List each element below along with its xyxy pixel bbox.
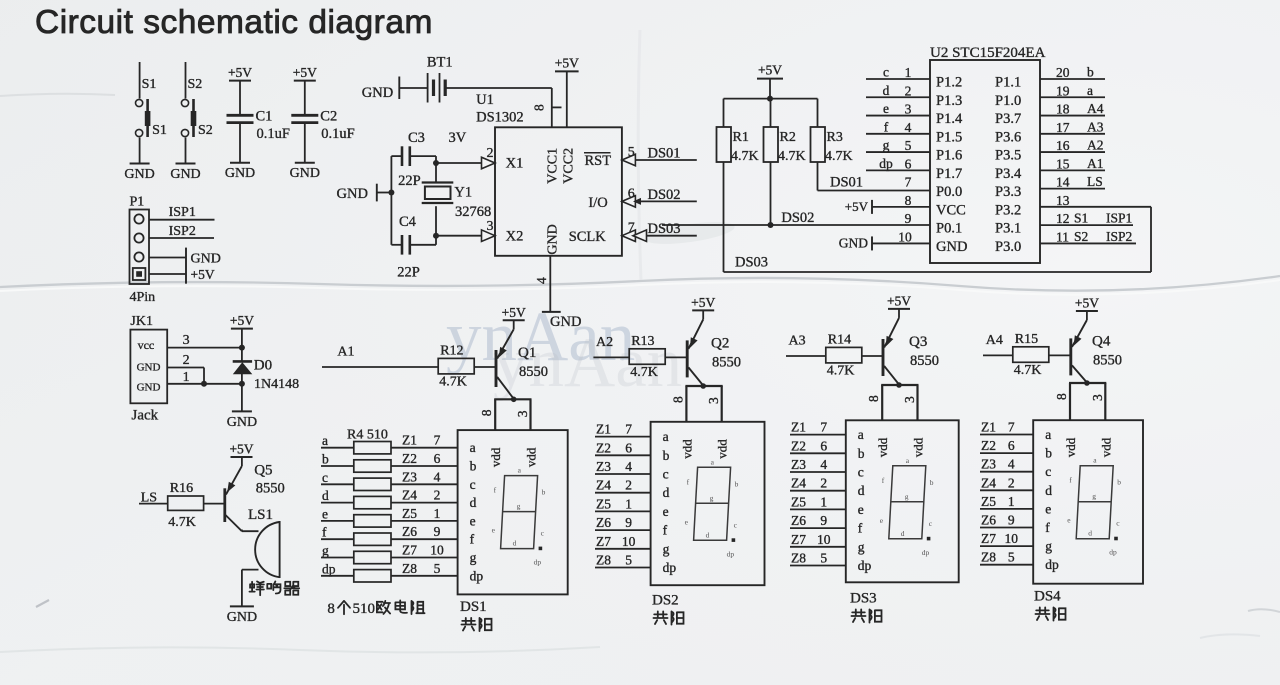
svg-text:R13: R13: [631, 334, 654, 349]
svg-text:0.1uF: 0.1uF: [321, 126, 354, 142]
svg-text:g: g: [322, 543, 329, 558]
svg-text:6: 6: [905, 156, 912, 171]
svg-text:GND: GND: [191, 252, 221, 267]
svg-text:ISP2: ISP2: [1106, 229, 1132, 244]
svg-text:a: a: [1045, 427, 1051, 442]
svg-text:1N4148: 1N4148: [254, 377, 299, 392]
svg-text:14: 14: [1056, 175, 1070, 190]
svg-text:10: 10: [430, 543, 444, 558]
svg-text:Z3: Z3: [791, 457, 806, 472]
svg-text:Circuit schematic diagram: Circuit schematic diagram: [35, 4, 433, 41]
svg-text:R4 510: R4 510: [347, 428, 388, 443]
svg-text:Z3: Z3: [402, 469, 417, 484]
svg-text:GND: GND: [290, 166, 320, 181]
svg-text:DS03: DS03: [648, 221, 681, 237]
svg-text:a: a: [470, 440, 476, 455]
svg-text:5: 5: [905, 138, 912, 153]
svg-text:Z7: Z7: [402, 543, 417, 558]
svg-text:+5V: +5V: [502, 305, 526, 320]
svg-text:Z5: Z5: [402, 506, 417, 521]
svg-text:4.7K: 4.7K: [778, 149, 806, 164]
svg-text:DS4: DS4: [1034, 589, 1061, 605]
svg-text:4.7K: 4.7K: [439, 375, 467, 390]
svg-text:JK1: JK1: [130, 314, 153, 329]
svg-text:Z2: Z2: [981, 438, 996, 453]
svg-text:Z4: Z4: [402, 488, 417, 503]
svg-text:2: 2: [487, 146, 494, 161]
svg-text:b: b: [1045, 446, 1052, 461]
svg-text:g: g: [470, 550, 477, 565]
svg-text:Z2: Z2: [402, 451, 417, 466]
svg-text:+5V: +5V: [758, 63, 782, 78]
svg-text:LS1: LS1: [248, 507, 273, 523]
svg-text:BT1: BT1: [427, 55, 453, 71]
svg-text:Z8: Z8: [981, 550, 996, 565]
svg-text:5: 5: [628, 145, 635, 160]
svg-text:c: c: [470, 477, 476, 492]
svg-text:9: 9: [905, 211, 912, 226]
svg-text:1: 1: [625, 496, 632, 511]
svg-text:Z3: Z3: [981, 457, 996, 472]
svg-text:+5V: +5V: [230, 313, 254, 328]
svg-text:g: g: [663, 541, 670, 556]
svg-text:1: 1: [434, 506, 441, 521]
svg-text:GND: GND: [550, 314, 581, 330]
svg-text:R12: R12: [440, 344, 463, 359]
svg-text:9: 9: [820, 513, 827, 528]
svg-text:dp: dp: [858, 558, 872, 573]
svg-text:+5V: +5V: [228, 65, 252, 80]
svg-text:2: 2: [183, 353, 190, 368]
svg-text:d: d: [470, 495, 477, 510]
svg-text:D0: D0: [254, 358, 272, 374]
svg-text:g: g: [883, 138, 890, 153]
svg-text:19: 19: [1056, 83, 1070, 98]
svg-text:c: c: [858, 465, 864, 480]
svg-text:P1.0: P1.0: [995, 93, 1021, 109]
svg-text:3V: 3V: [449, 130, 467, 146]
svg-text:GND: GND: [227, 610, 257, 625]
svg-text:5: 5: [434, 561, 441, 576]
svg-text:C4: C4: [399, 214, 417, 230]
svg-text:c: c: [1045, 464, 1051, 479]
svg-text:+5V: +5V: [229, 442, 253, 457]
svg-text:2: 2: [434, 488, 441, 503]
svg-text:dp: dp: [470, 568, 484, 583]
svg-text:d: d: [322, 488, 329, 503]
svg-text:+5V: +5V: [1075, 296, 1099, 311]
svg-text:1: 1: [820, 494, 827, 509]
svg-text:8550: 8550: [910, 353, 939, 369]
svg-text:LS: LS: [1087, 174, 1103, 189]
svg-text:f: f: [322, 525, 327, 540]
svg-text:Z1: Z1: [791, 420, 806, 435]
svg-text:VCC2: VCC2: [561, 148, 576, 184]
svg-text:2: 2: [1008, 475, 1015, 490]
svg-text:Z1: Z1: [402, 433, 417, 448]
svg-text:3: 3: [1090, 394, 1105, 401]
svg-text:Q5: Q5: [254, 463, 272, 479]
svg-text:GND: GND: [225, 166, 255, 181]
svg-text:SCLK: SCLK: [569, 229, 607, 245]
svg-text:510: 510: [353, 601, 376, 617]
svg-text:6: 6: [820, 438, 827, 453]
svg-text:4.7K: 4.7K: [168, 515, 196, 530]
svg-text:Q3: Q3: [909, 334, 927, 350]
svg-text:P3.2: P3.2: [995, 202, 1021, 218]
svg-text:11: 11: [1056, 229, 1069, 244]
svg-text:7: 7: [905, 175, 912, 190]
svg-text:Z4: Z4: [981, 475, 996, 490]
svg-text:U1: U1: [476, 92, 494, 108]
svg-text:X2: X2: [506, 229, 524, 245]
svg-text:5: 5: [625, 553, 632, 568]
svg-text:X1: X1: [506, 156, 524, 172]
svg-text:4.7K: 4.7K: [731, 149, 759, 164]
svg-text:15: 15: [1056, 156, 1070, 171]
svg-text:d: d: [901, 529, 905, 538]
svg-text:3: 3: [902, 396, 917, 403]
svg-text:2: 2: [820, 476, 827, 491]
svg-text:DS01: DS01: [830, 175, 863, 191]
svg-text:dp: dp: [1109, 548, 1117, 557]
svg-text:I/O: I/O: [588, 195, 607, 211]
svg-text:Z2: Z2: [791, 438, 806, 453]
svg-text:d: d: [883, 83, 890, 98]
svg-text:dp: dp: [1045, 557, 1059, 572]
svg-text:Z8: Z8: [596, 553, 611, 568]
svg-text:f: f: [1045, 520, 1050, 535]
svg-text:e: e: [883, 101, 889, 116]
svg-text:4: 4: [1008, 457, 1015, 472]
svg-text:GND: GND: [227, 415, 257, 430]
svg-text:b: b: [930, 478, 934, 487]
svg-text:2: 2: [905, 83, 912, 98]
svg-text:22P: 22P: [397, 265, 420, 281]
svg-text:A1: A1: [1087, 156, 1104, 171]
svg-text:S1: S1: [142, 77, 157, 92]
svg-text:dp: dp: [322, 561, 336, 576]
svg-text:Z1: Z1: [981, 420, 996, 435]
svg-text:A2: A2: [596, 335, 613, 350]
svg-text:c: c: [663, 467, 669, 482]
svg-text:4.7K: 4.7K: [825, 149, 853, 164]
svg-text:P1.2: P1.2: [936, 75, 962, 91]
svg-text:d: d: [706, 530, 710, 539]
svg-text:b: b: [858, 446, 865, 461]
svg-text:Jack: Jack: [132, 408, 159, 424]
svg-text:4: 4: [905, 120, 912, 135]
svg-text:GND: GND: [546, 224, 561, 254]
svg-text:b: b: [470, 459, 477, 474]
svg-text:3: 3: [183, 333, 190, 348]
svg-text:DS1302: DS1302: [476, 110, 524, 126]
svg-text:8550: 8550: [256, 481, 285, 497]
svg-text:4.7K: 4.7K: [630, 365, 658, 380]
svg-text:VCC1: VCC1: [546, 148, 561, 184]
svg-text:DS02: DS02: [781, 210, 814, 226]
svg-text:g: g: [710, 493, 714, 502]
svg-text:P1.6: P1.6: [936, 148, 962, 164]
svg-text:3: 3: [515, 410, 530, 417]
svg-text:6: 6: [628, 187, 635, 202]
svg-text:9: 9: [1008, 513, 1015, 528]
svg-text:e: e: [663, 504, 669, 519]
svg-text:a: a: [1087, 83, 1093, 98]
svg-text:Z6: Z6: [981, 513, 996, 528]
svg-text:A1: A1: [337, 345, 354, 360]
svg-text:8: 8: [1054, 393, 1069, 400]
svg-text:0.1uF: 0.1uF: [257, 126, 290, 142]
svg-text:GND: GND: [839, 235, 868, 250]
svg-text:U2 STC15F204EA: U2 STC15F204EA: [930, 45, 1046, 61]
svg-text:3: 3: [487, 219, 494, 234]
svg-text:10: 10: [898, 229, 912, 244]
svg-text:a: a: [858, 427, 864, 442]
svg-text:P1: P1: [130, 195, 145, 210]
svg-text:DS01: DS01: [648, 146, 681, 162]
svg-text:P0.0: P0.0: [936, 184, 962, 200]
svg-text:8550: 8550: [712, 354, 741, 370]
svg-text:18: 18: [1056, 102, 1070, 117]
svg-text:DS02: DS02: [648, 187, 681, 203]
svg-text:Z5: Z5: [791, 494, 806, 509]
svg-text:d: d: [513, 539, 517, 548]
svg-text:DS03: DS03: [735, 255, 768, 271]
svg-text:c: c: [322, 470, 328, 485]
svg-text:R3: R3: [827, 130, 843, 145]
svg-text:Z7: Z7: [596, 534, 611, 549]
svg-text:S1: S1: [1074, 211, 1088, 226]
svg-text:g: g: [858, 539, 865, 554]
svg-text:5: 5: [820, 551, 827, 566]
svg-text:S2: S2: [188, 77, 203, 92]
svg-text:Z8: Z8: [402, 561, 417, 576]
svg-text:+5V: +5V: [691, 295, 715, 310]
svg-text:Q4: Q4: [1092, 333, 1111, 349]
svg-text:5: 5: [1008, 550, 1015, 565]
svg-text:10: 10: [1004, 531, 1018, 546]
svg-text:A4: A4: [986, 333, 1003, 348]
svg-text:2: 2: [625, 478, 632, 493]
svg-text:S2: S2: [198, 123, 213, 138]
svg-text:S2: S2: [1074, 229, 1088, 244]
svg-text:+5V: +5V: [555, 56, 579, 71]
svg-text:d: d: [858, 483, 865, 498]
svg-text:P1.5: P1.5: [936, 129, 962, 145]
svg-text:7: 7: [434, 433, 441, 448]
svg-text:Z6: Z6: [596, 515, 611, 530]
svg-text:20: 20: [1056, 65, 1070, 80]
svg-text:4: 4: [534, 277, 549, 284]
svg-text:4: 4: [434, 469, 441, 484]
svg-text:A3: A3: [1087, 119, 1104, 134]
svg-text:DS3: DS3: [850, 591, 877, 607]
svg-text:22P: 22P: [398, 173, 421, 189]
svg-text:8550: 8550: [519, 364, 548, 380]
svg-text:vdd: vdd: [911, 437, 926, 457]
svg-text:vdd: vdd: [488, 447, 503, 467]
svg-text:Z5: Z5: [981, 494, 996, 509]
svg-text:GND: GND: [137, 362, 161, 374]
svg-text:Z1: Z1: [596, 422, 611, 437]
svg-text:d: d: [1045, 483, 1052, 498]
svg-text:vcc: vcc: [138, 338, 155, 352]
svg-text:Z6: Z6: [402, 524, 417, 539]
svg-text:8: 8: [905, 193, 912, 208]
svg-text:3: 3: [905, 102, 912, 117]
svg-text:1: 1: [1008, 494, 1015, 509]
svg-text:R2: R2: [780, 130, 796, 145]
svg-text:f: f: [884, 119, 889, 134]
svg-text:4Pin: 4Pin: [130, 290, 156, 305]
svg-text:16: 16: [1056, 138, 1070, 153]
svg-text:S1: S1: [152, 123, 167, 138]
svg-text:GND: GND: [124, 167, 154, 182]
svg-text:R16: R16: [170, 481, 193, 496]
svg-text:e: e: [1045, 501, 1051, 516]
svg-text:f: f: [470, 532, 475, 547]
svg-text:9: 9: [434, 524, 441, 539]
svg-text:P3.1: P3.1: [995, 221, 1021, 237]
svg-text:vdd: vdd: [1063, 437, 1078, 457]
svg-text:8550: 8550: [1093, 352, 1122, 368]
svg-text:4.7K: 4.7K: [827, 364, 855, 379]
svg-text:3: 3: [706, 397, 721, 404]
svg-text:a: a: [663, 429, 669, 444]
svg-text:7: 7: [1008, 420, 1015, 435]
svg-text:vdd: vdd: [679, 439, 694, 459]
svg-text:8: 8: [479, 409, 494, 416]
svg-text:12: 12: [1056, 211, 1070, 226]
svg-text:A4: A4: [1087, 101, 1104, 116]
svg-text:Z7: Z7: [981, 531, 996, 546]
svg-text:9: 9: [625, 515, 632, 530]
svg-text:Z5: Z5: [596, 496, 611, 511]
svg-text:13: 13: [1056, 193, 1070, 208]
svg-text:P3.6: P3.6: [995, 129, 1021, 145]
svg-text:dp: dp: [727, 549, 735, 558]
svg-text:dp: dp: [663, 560, 677, 575]
svg-text:d: d: [663, 485, 670, 500]
svg-text:e: e: [470, 513, 476, 528]
svg-text:vdd: vdd: [1098, 437, 1113, 457]
svg-text:e: e: [858, 502, 864, 517]
svg-text:g: g: [1092, 492, 1096, 501]
svg-text:C3: C3: [408, 130, 425, 146]
svg-text:+5V: +5V: [887, 293, 911, 308]
svg-text:a: a: [322, 433, 328, 448]
svg-text:C2: C2: [320, 109, 337, 125]
svg-text:P1.1: P1.1: [995, 75, 1021, 91]
svg-text:g: g: [1045, 539, 1052, 554]
svg-text:P1.7: P1.7: [936, 166, 962, 182]
svg-text:R1: R1: [733, 130, 749, 145]
svg-text:GND: GND: [337, 186, 368, 202]
svg-text:32768: 32768: [455, 204, 491, 220]
svg-text:17: 17: [1056, 120, 1070, 135]
svg-text:e: e: [322, 506, 328, 521]
svg-text:b: b: [1087, 65, 1094, 80]
svg-text:+5V: +5V: [191, 267, 215, 282]
svg-text:b: b: [1117, 478, 1121, 487]
svg-text:d: d: [1088, 529, 1092, 538]
svg-text:R14: R14: [828, 333, 851, 348]
svg-text:vdd: vdd: [875, 437, 890, 457]
svg-text:8: 8: [670, 396, 685, 403]
svg-text:P0.1: P0.1: [936, 221, 962, 237]
svg-text:c: c: [883, 65, 889, 80]
svg-text:Z4: Z4: [791, 476, 806, 491]
svg-text:P3.7: P3.7: [995, 111, 1021, 127]
svg-text:g: g: [905, 492, 909, 501]
svg-text:1: 1: [905, 65, 912, 80]
svg-text:ISP1: ISP1: [1106, 211, 1132, 226]
svg-text:6: 6: [1008, 438, 1015, 453]
svg-text:P3.4: P3.4: [995, 166, 1022, 182]
svg-text:P1.3: P1.3: [936, 93, 962, 109]
svg-text:1: 1: [183, 370, 190, 385]
svg-text:7: 7: [628, 221, 635, 236]
svg-text:P3.0: P3.0: [995, 239, 1021, 255]
svg-text:b: b: [663, 448, 670, 463]
svg-text:RST: RST: [585, 153, 612, 169]
svg-text:4.7K: 4.7K: [1014, 363, 1042, 378]
svg-text:VCC: VCC: [936, 202, 966, 218]
svg-text:Z4: Z4: [596, 478, 611, 493]
svg-text:4: 4: [820, 457, 827, 472]
svg-text:Y1: Y1: [454, 185, 472, 201]
svg-text:Q2: Q2: [711, 335, 729, 351]
svg-text:GND: GND: [362, 85, 393, 101]
svg-text:b: b: [735, 479, 739, 488]
svg-text:+5V: +5V: [845, 199, 869, 214]
svg-text:DS2: DS2: [652, 593, 679, 609]
svg-text:10: 10: [622, 534, 636, 549]
svg-text:vdd: vdd: [715, 439, 730, 459]
svg-text:GND: GND: [170, 167, 200, 182]
svg-text:P3.5: P3.5: [995, 148, 1021, 164]
svg-text:8: 8: [532, 104, 547, 111]
svg-text:Z2: Z2: [596, 440, 611, 455]
svg-text:GND: GND: [936, 239, 967, 255]
svg-text:10: 10: [817, 532, 831, 547]
svg-text:6: 6: [625, 440, 632, 455]
svg-text:7: 7: [625, 422, 632, 437]
svg-text:Z3: Z3: [596, 459, 611, 474]
svg-text:R15: R15: [1015, 332, 1038, 347]
svg-text:dp: dp: [534, 558, 542, 567]
svg-text:A2: A2: [1087, 138, 1104, 153]
svg-text:Z6: Z6: [791, 513, 806, 528]
svg-text:b: b: [542, 488, 546, 497]
svg-text:Z7: Z7: [791, 532, 806, 547]
svg-text:6: 6: [434, 451, 441, 466]
svg-text:b: b: [322, 452, 329, 467]
svg-text:f: f: [858, 521, 863, 536]
svg-text:4: 4: [625, 459, 632, 474]
svg-text:P3.3: P3.3: [995, 184, 1021, 200]
svg-text:ISP2: ISP2: [169, 224, 196, 239]
svg-text:Z8: Z8: [791, 551, 806, 566]
svg-text:f: f: [663, 523, 668, 538]
svg-text:Q1: Q1: [518, 345, 536, 361]
svg-text:DS1: DS1: [460, 599, 487, 615]
svg-text:A3: A3: [789, 334, 806, 349]
svg-text:ISP1: ISP1: [169, 205, 196, 220]
svg-text:GND: GND: [137, 382, 161, 394]
svg-text:vdd: vdd: [524, 447, 539, 467]
